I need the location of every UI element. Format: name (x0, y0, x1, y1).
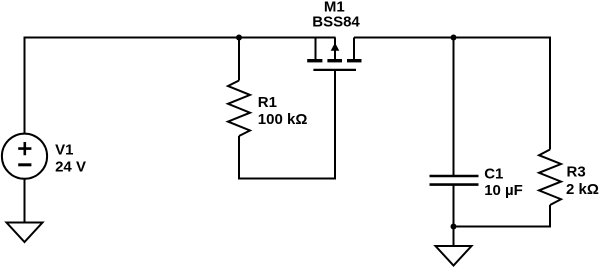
wire: C1 bottom lead to ground node (453, 185, 455, 227)
wire: top rail from M1 drain to R3 (354, 38, 550, 150)
svg-text:C1: C1 (484, 165, 503, 182)
junction dot: drain node / C1 top (451, 35, 457, 41)
capacitor C1 top plate (430, 175, 479, 178)
transistor M1 drain drop wire (353, 38, 355, 62)
ground symbol (left, under V1) (7, 223, 43, 243)
resistor R1 zigzag body (228, 81, 250, 137)
V1 plus sign (18, 142, 31, 155)
junction dot: ground node under C1 (451, 224, 457, 230)
wire: R3 bottom lead and bottom rail to ground node (454, 205, 551, 227)
wire: ground lead below C1 (453, 227, 455, 247)
transistor M1 arrowhead (P-channel, pointing up) (331, 43, 340, 51)
svg-text:10 µF: 10 µF (484, 182, 523, 199)
svg-text:100 kΩ: 100 kΩ (258, 111, 308, 128)
transistor M1 gate bar (313, 69, 356, 71)
svg-text:BSS84: BSS84 (312, 14, 360, 31)
svg-text:2 kΩ: 2 kΩ (566, 181, 599, 198)
resistor R3 zigzag body (539, 150, 561, 206)
wire: R1 top lead (238, 38, 240, 81)
transistor M1 source contact bar (307, 59, 322, 62)
V1 minus sign (18, 163, 31, 166)
capacitor C1 bottom plate (430, 183, 479, 186)
voltage source V1 circle (2, 134, 47, 179)
svg-text:R3: R3 (567, 164, 586, 181)
transistor M1 body contact bar (327, 59, 342, 62)
transistor M1 body arrow leg (334, 38, 336, 62)
wire: V1 negative lead to ground (24, 179, 26, 223)
svg-text:V1: V1 (55, 142, 73, 159)
wire: R1 bottom lead down, across and up to M1 gate (239, 70, 335, 179)
wire: C1 top lead (453, 38, 455, 177)
transistor M1 drain contact bar (347, 59, 362, 62)
svg-text:24 V: 24 V (55, 158, 86, 175)
wire: V1 positive lead up left side and top rail to M1 (25, 38, 336, 135)
svg-text:R1: R1 (258, 94, 277, 111)
ground symbol (right) (436, 246, 472, 266)
transistor M1 source drop wire (315, 38, 317, 62)
junction dot: top rail / R1 top node (236, 35, 242, 41)
